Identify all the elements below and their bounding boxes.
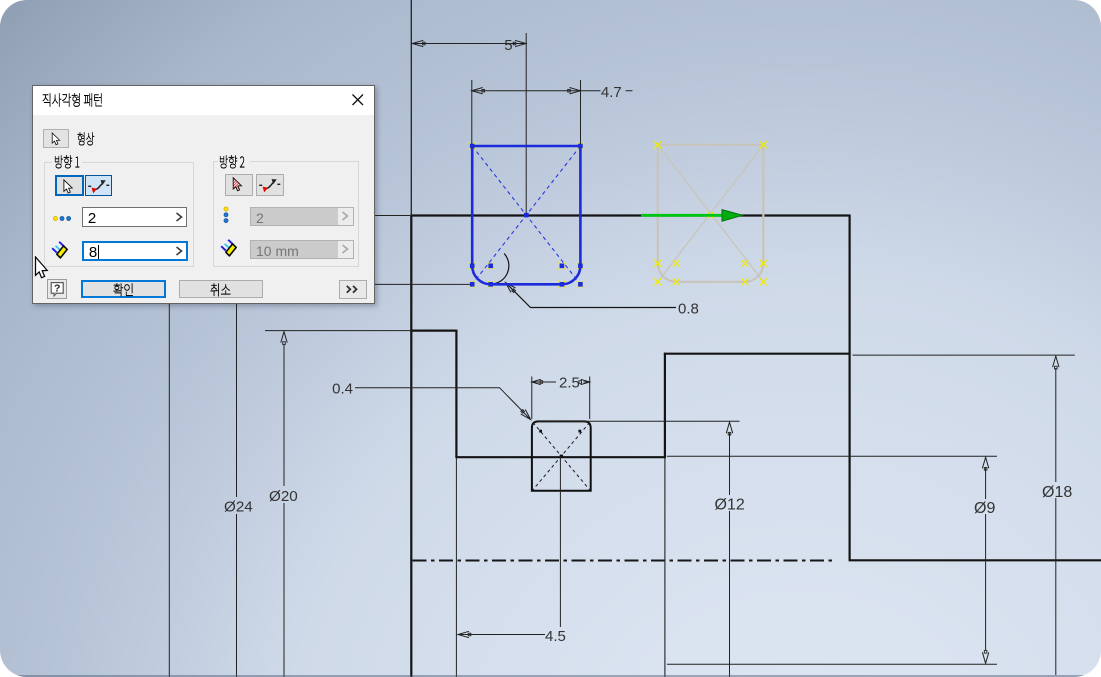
svg-text:5: 5	[504, 37, 512, 54]
wire: step edge y=330	[410, 330, 456, 332]
pattern direction green arrow	[641, 214, 724, 217]
group direction 1	[44, 162, 193, 268]
dir1 count icon	[52, 215, 72, 223]
extension x=456 below part	[455, 458, 457, 677]
help button	[47, 279, 68, 299]
dir2 count icon (vertical dots)	[222, 206, 230, 224]
slot profile rounded square	[532, 421, 591, 490]
leader 0.4	[355, 388, 530, 419]
dir1 spacing icon	[51, 241, 69, 259]
svg-text:0.8: 0.8	[678, 301, 699, 318]
dim 20 dimension line y=330.6	[265, 330, 410, 332]
wire: part left face vertical edge	[410, 216, 412, 677]
more button >>	[339, 280, 367, 299]
centerline (dash-dot)	[413, 560, 837, 562]
dim 20 vertical x=284	[283, 344, 285, 677]
dim 9	[667, 455, 997, 457]
extension vertical x=169 (dim hidden by dialog)	[168, 304, 170, 677]
dir1 spacing box (focused)	[82, 241, 187, 261]
dimension 4.5	[459, 634, 545, 636]
yellow marks on blue square	[469, 143, 476, 150]
wire: step vertical x=665	[664, 353, 666, 459]
blue grips	[470, 144, 475, 149]
wire: right section bottom edge y=560	[849, 559, 1101, 561]
dir2 count box (disabled)	[250, 207, 354, 227]
preview yellow constraint marks	[654, 141, 661, 148]
dim 18	[853, 354, 1075, 356]
dir1 flip button (checked)	[85, 175, 113, 196]
svg-text:4.7: 4.7	[601, 84, 622, 101]
dim 24 dimension line y=215.5	[370, 215, 410, 217]
dimension 2.5	[532, 381, 590, 383]
svg-text:0.4: 0.4	[332, 380, 353, 397]
slot centerline vertical	[559, 456, 561, 627]
wire: part right face at x=849	[848, 215, 850, 561]
wire: neck top edge y=457	[455, 456, 665, 458]
dir1 count box	[82, 207, 187, 227]
svg-text:Ø18: Ø18	[1042, 484, 1072, 501]
group direction 2	[213, 161, 359, 268]
dir2 spacing box (disabled)	[250, 240, 354, 260]
mouse cursor	[34, 256, 56, 282]
svg-text:Ø9: Ø9	[974, 500, 995, 517]
dir2 flip button	[256, 174, 284, 196]
dir1 select button (active blue border)	[55, 175, 84, 196]
svg-text:Ø24: Ø24	[224, 498, 253, 515]
dim 24 vertical x=236.5	[236, 304, 238, 677]
slot diagonals dashed	[533, 422, 590, 489]
blue dashed diagonals	[472, 146, 580, 284]
geometry select button	[43, 129, 69, 148]
wire: edge y=353.7	[664, 353, 850, 355]
dir2 select button	[225, 174, 253, 196]
dimension 5	[412, 43, 526, 45]
wire: part top edge	[410, 214, 849, 216]
slot point grips	[539, 430, 542, 433]
OK button	[81, 280, 165, 298]
svg-text:2.5: 2.5	[559, 374, 580, 391]
dir2 spacing icon	[220, 239, 238, 257]
4.7 extension lines	[472, 80, 581, 144]
wire: step vertical x=456	[455, 330, 457, 458]
svg-text:?: ?	[54, 283, 60, 295]
bottom dim line y=664	[667, 663, 997, 665]
pattern preview square (gray)	[658, 145, 764, 282]
dim line y=284.4 from dialog to sketch	[370, 283, 471, 285]
leader 0.8 radius arc	[492, 254, 509, 285]
dialog: rectangular pattern	[32, 85, 376, 305]
selected sketch square (blue)	[472, 146, 580, 284]
svg-text:4.5: 4.5	[545, 628, 566, 645]
dim 12	[538, 420, 740, 422]
svg-text:Ø20: Ø20	[269, 488, 298, 505]
dimension 4.7	[472, 90, 633, 92]
cancel button	[179, 280, 264, 298]
preview diagonals	[658, 145, 764, 282]
extension line above part face	[410, 0, 412, 216]
extension x=665 below part	[664, 458, 666, 677]
svg-text:Ø12: Ø12	[715, 497, 745, 514]
extension line x=526	[525, 33, 527, 215]
